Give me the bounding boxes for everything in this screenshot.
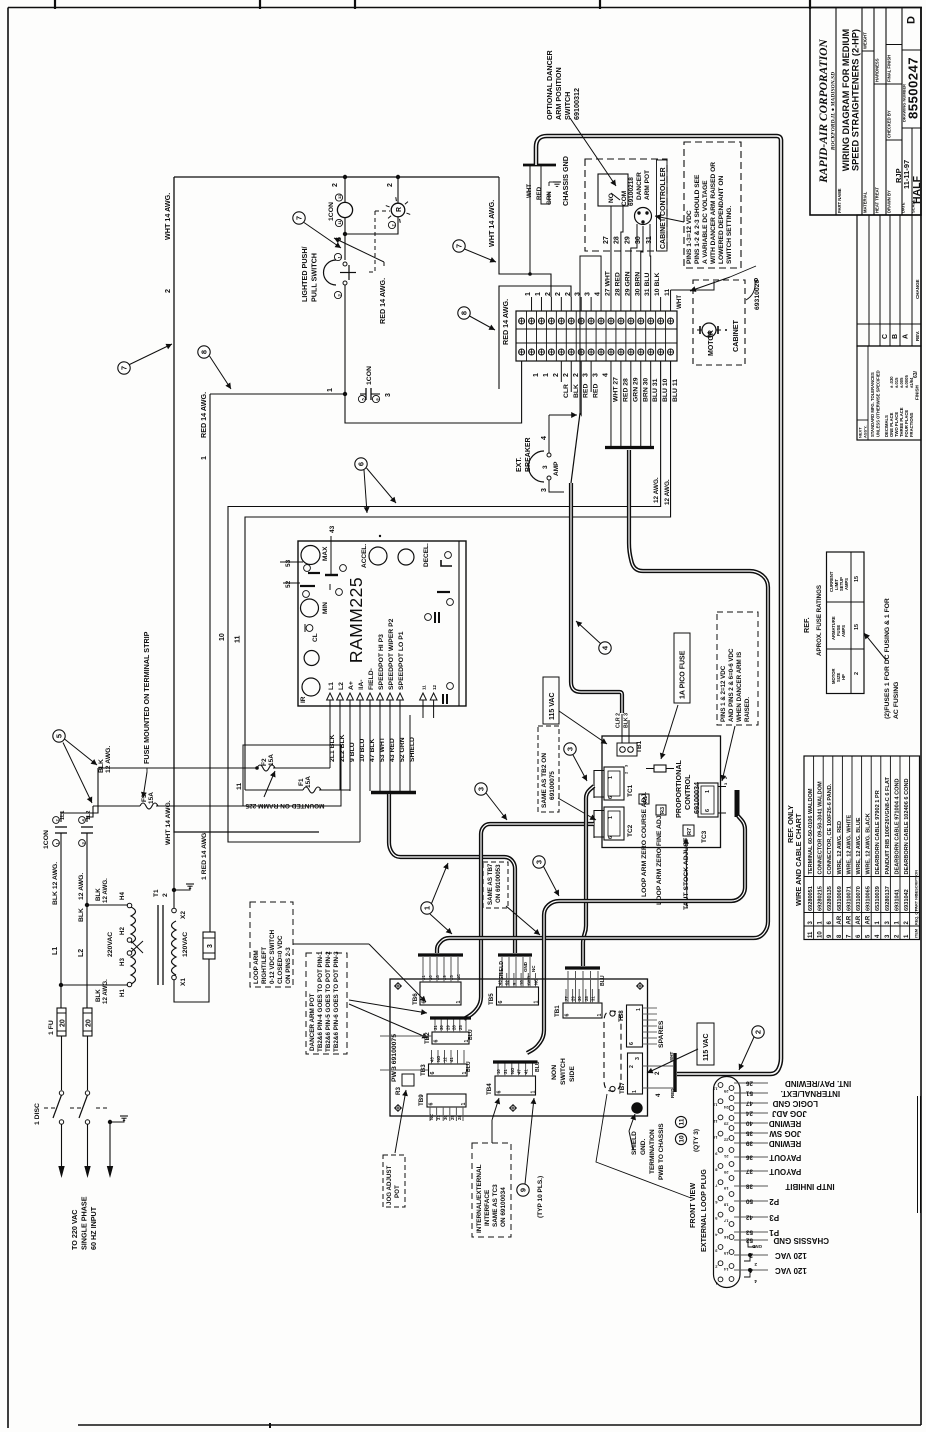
svg-text:9 BLU: 9 BLU (349, 742, 356, 762)
svg-text:‖A-: ‖A- (358, 679, 365, 690)
svg-text:WHT 14 AWG.: WHT 14 AWG. (165, 800, 172, 845)
leader fuses note (864, 633, 886, 660)
svg-text:11: 11 (678, 1118, 685, 1125)
svg-text:PULL SWITCH: PULL SWITCH (310, 253, 319, 302)
svg-text:7: 7 (120, 366, 129, 370)
svg-text:PART NAME: PART NAME (837, 188, 842, 213)
svg-text:6: 6 (430, 1072, 436, 1075)
svg-text:R: R (396, 207, 403, 212)
svg-text:2: 2 (332, 183, 339, 187)
svg-text:2: 2 (555, 292, 562, 296)
svg-text:BLK: BLK (78, 908, 85, 922)
svg-text:6931042: 6931042 (904, 889, 910, 911)
svg-text:DEARBORN CABLE 102406 6 COND: DEARBORN CABLE 102406 6 COND (904, 778, 910, 874)
PWB mounting marks (395, 983, 402, 990)
svg-text:65310039: 65310039 (875, 886, 881, 911)
svg-text:SHIELD: SHIELD (631, 1131, 638, 1155)
svg-text:ITEM: ITEM (915, 929, 919, 938)
svg-text:1: 1 (327, 388, 334, 392)
leader balloon 3 low (544, 867, 560, 897)
svg-text:1: 1 (597, 1014, 603, 1017)
wire lamp R to top line (397, 177, 399, 203)
svg-text:25: 25 (723, 1089, 728, 1094)
svg-text:PANDUIT RIB 100F26VGN8-C 6 FL: PANDUIT RIB 100F26VGN8-C 6 FLAT (885, 777, 891, 875)
svg-text:JOG ADJ: JOG ADJ (772, 1109, 807, 1118)
svg-text:52: 52 (745, 1237, 753, 1244)
svg-text:CONTROL: CONTROL (683, 774, 692, 810)
proportional control box (602, 736, 721, 848)
TC1 connector (604, 767, 624, 800)
svg-text:2: 2 (854, 672, 860, 675)
balloon 9 (517, 1184, 529, 1196)
svg-text:UNLESS OTHERWISE SPECIFIED: UNLESS OTHERWISE SPECIFIED (876, 370, 881, 437)
svg-text:120 VAC: 120 VAC (775, 1266, 807, 1275)
svg-text:2: 2 (162, 893, 169, 897)
leader balloon 7 to enclosure (130, 344, 173, 365)
svg-text:ASS'Y.: ASS'Y. (863, 425, 868, 438)
svg-text:LIGHTED PUSH/: LIGHTED PUSH/ (300, 246, 309, 302)
wire switch to node 1 (344, 285, 346, 394)
svg-text:3: 3 (566, 747, 575, 751)
leader 115vac to box (559, 711, 607, 744)
svg-text:1CON: 1CON (366, 366, 373, 385)
R7 box (683, 825, 694, 836)
RAMM shield bar (371, 791, 416, 794)
same as TB7 dashed label (483, 862, 508, 908)
svg-text:2: 2 (553, 373, 560, 377)
svg-text:BLK 3: BLK 3 (624, 713, 630, 728)
loop plug pins (718, 1083, 723, 1088)
lamp 1CON pilot light (337, 202, 352, 217)
115 VAC label upper (543, 677, 559, 724)
svg-text:16: 16 (723, 1235, 728, 1240)
svg-text:4: 4 (603, 373, 610, 377)
svg-text:1: 1 (534, 1001, 540, 1004)
wire RED-1 vertical (209, 394, 211, 932)
wire BLU 10 to RAMM line (228, 361, 661, 842)
svg-text:1 DISC: 1 DISC (34, 1103, 41, 1125)
TC2 connector (604, 807, 624, 840)
svg-text:14: 14 (723, 1267, 728, 1272)
wire chart table (804, 756, 920, 940)
svg-text:SPARES: SPARES (658, 1020, 665, 1048)
balloon 7 left (118, 362, 130, 374)
svg-text:115 VAC: 115 VAC (703, 1034, 710, 1062)
svg-text:JOG ADJUST: JOG ADJUST (386, 1165, 393, 1205)
svg-text:28 RED: 28 RED (614, 272, 621, 296)
terminal screws bottom row (519, 349, 525, 355)
svg-text:2: 2 (563, 373, 570, 377)
jog adjust pot dashed label (383, 1155, 405, 1207)
svg-text:31: 31 (436, 1115, 441, 1120)
leader balloon 9 (525, 1098, 534, 1184)
svg-text:AMP: AMP (553, 461, 560, 476)
junction L1 to H1 (59, 983, 63, 987)
fold mark bottom (269, 1423, 271, 1428)
TC3 cable bar (735, 790, 740, 817)
svg-text:TB7: TB7 (619, 1082, 626, 1094)
svg-text:LOGIC GND: LOGIC GND (772, 1099, 818, 1108)
svg-text:WHT: WHT (526, 184, 533, 198)
title block outline (810, 8, 921, 216)
R1 box (639, 794, 649, 804)
svg-text:50: 50 (745, 1198, 753, 1205)
gnd at X2 (174, 886, 190, 890)
svg-text:SAME AS TC3: SAME AS TC3 (492, 1184, 499, 1227)
svg-text:20: 20 (723, 1170, 728, 1175)
TB2 terminal block (432, 1032, 469, 1044)
svg-text:29 GRN: 29 GRN (624, 271, 631, 296)
svg-text:BLK: BLK (95, 888, 102, 901)
TB5 terminal block (497, 987, 539, 1005)
svg-text:INT. PAY/REWIND: INT. PAY/REWIND (785, 1079, 851, 1088)
svg-text:FUSE MOUNTED ON TERMINAL STRIP: FUSE MOUNTED ON TERMINAL STRIP (142, 631, 151, 764)
RAMM screw 11 (329, 584, 331, 590)
leader pico fuse (661, 705, 678, 759)
svg-text:120VAC: 120VAC (182, 932, 189, 957)
svg-text:RED 14 AWG.: RED 14 AWG. (199, 392, 208, 438)
svg-text:7: 7 (295, 216, 304, 220)
svg-text:85500247: 85500247 (906, 57, 921, 119)
svg-text:TB6: TB6 (412, 993, 419, 1005)
svg-text:BLU: BLU (466, 1061, 472, 1072)
svg-text:6: 6 (498, 1001, 504, 1004)
svg-text:43: 43 (430, 1057, 435, 1062)
svg-text:53 WHT: 53 WHT (379, 736, 386, 762)
transformer secondary (172, 921, 177, 975)
svg-text:1: 1 (531, 1091, 537, 1094)
svg-text:CHECKED BY: CHECKED BY (887, 110, 892, 138)
svg-text:TERMINATION: TERMINATION (649, 1129, 656, 1174)
terminal strip body (516, 311, 677, 361)
svg-text:0-12 VDC SWITCH: 0-12 VDC SWITCH (269, 929, 276, 984)
leader balloon 3 mid (486, 793, 507, 820)
svg-text:RED: RED (593, 384, 600, 398)
svg-text:6: 6 (629, 1042, 635, 1045)
breaker contacts (547, 453, 551, 457)
svg-text:53: 53 (285, 559, 292, 567)
svg-text:EXT.: EXT. (516, 457, 523, 472)
svg-text:NC: NC (429, 1114, 434, 1120)
svg-text:INTERNAL/EXT.: INTERNAL/EXT. (781, 1089, 841, 1098)
svg-text:1: 1 (461, 1103, 467, 1106)
svg-text:SPEEDPOT LO P1: SPEEDPOT LO P1 (398, 631, 405, 690)
svg-text:NO: NO (436, 1055, 441, 1062)
svg-text:11: 11 (422, 685, 427, 690)
ground electrode (108, 1120, 112, 1124)
svg-text:41: 41 (449, 1057, 454, 1062)
svg-text:7: 7 (455, 244, 464, 248)
svg-text:AMPS: AMPS (844, 578, 849, 590)
svg-text:15A: 15A (305, 776, 312, 788)
TB6 terminal block (420, 982, 461, 1005)
svg-text:T1: T1 (153, 889, 160, 897)
svg-text:30: 30 (577, 996, 582, 1001)
svg-text:R3: R3 (660, 807, 666, 814)
svg-text:6: 6 (608, 796, 614, 799)
chassis gnd symbol top (553, 181, 561, 183)
svg-text:1: 1 (705, 790, 711, 793)
svg-text:WHT 14 AWG.: WHT 14 AWG. (487, 200, 496, 247)
svg-text:REV.: REV. (915, 331, 920, 341)
svg-text:TB8: TB8 (618, 1010, 625, 1022)
svg-text:RED: RED (536, 186, 543, 200)
svg-text:220VAC: 220VAC (107, 932, 114, 957)
svg-text:NON: NON (551, 1065, 558, 1080)
cable to proportional control TB1 (571, 413, 580, 483)
svg-text:2: 2 (754, 1262, 757, 1267)
svg-text:37: 37 (745, 1168, 753, 1175)
svg-text:10: 10 (712, 1135, 717, 1140)
svg-text:RED 28: RED 28 (622, 378, 629, 402)
svg-text:TB2&6 PIN-4 GOES TO POT PIN-1: TB2&6 PIN-4 GOES TO POT PIN-1 (317, 951, 324, 1052)
leader dancer switch label (570, 118, 616, 186)
leader jog adjust to R3 (395, 1090, 406, 1153)
leader balloon 5 to F3 line (63, 743, 92, 804)
svg-text:P2: P2 (769, 1197, 779, 1206)
svg-text:HARDNESS: HARDNESS (875, 58, 880, 82)
svg-text:RAPID-AIR CORPORATION: RAPID-AIR CORPORATION (818, 39, 830, 184)
svg-text:47: 47 (745, 1100, 753, 1107)
svg-text:25: 25 (450, 1115, 455, 1120)
svg-text:BLU 31: BLU 31 (652, 378, 659, 402)
leaders dancer note to TB2 TB6 (349, 1000, 427, 1013)
svg-text:L1: L1 (52, 947, 59, 955)
leader balloon 8 (470, 316, 496, 330)
svg-text:INTERFACE: INTERFACE (484, 1189, 491, 1226)
scan speck (379, 535, 381, 537)
wire L2 down (86, 845, 88, 1008)
svg-text:INTERNAL/EXTERNAL: INTERNAL/EXTERNAL (476, 1164, 483, 1233)
svg-text:DRAWN BY: DRAWN BY (887, 190, 892, 213)
RAMM pot ACCEL (369, 547, 387, 565)
cabinet controller label (657, 160, 668, 251)
svg-text:WIRE, 12 AWG. WHITE: WIRE, 12 AWG. WHITE (846, 814, 852, 874)
svg-text:22: 22 (723, 1138, 728, 1143)
svg-text:SAME AS TB7: SAME AS TB7 (487, 863, 494, 905)
svg-text:CABINET CONTROLLER: CABINET CONTROLLER (660, 167, 667, 249)
junction L2 to H4 (85, 903, 89, 907)
terminal strip cell dividers (526, 311, 528, 361)
svg-text:ON PINS 2-3: ON PINS 2-3 (285, 947, 292, 984)
svg-text:24: 24 (745, 1110, 753, 1117)
svg-text:6: 6 (608, 836, 614, 839)
loop cable termination bar (673, 1053, 676, 1092)
svg-text:12: 12 (443, 1057, 448, 1062)
balloon 8 right (458, 307, 470, 319)
breaker wiring (548, 415, 550, 453)
loop plug wires and labels (734, 1082, 768, 1084)
svg-text:15A: 15A (268, 754, 275, 766)
svg-text:REWIND: REWIND (769, 1119, 802, 1128)
svg-text:CABINET: CABINET (731, 319, 740, 352)
svg-text:WITH DANCER ARM RAISED OR: WITH DANCER ARM RAISED OR (710, 162, 717, 264)
svg-text:1: 1 (608, 776, 614, 779)
svg-text:FINISH: FINISH (915, 385, 920, 400)
leader pins note to pot (655, 216, 684, 222)
wire lamp to top line (344, 177, 346, 203)
svg-text:1: 1 (525, 292, 532, 296)
svg-text:SPEED STRAIGHTENERS (2-HP): SPEED STRAIGHTENERS (2-HP) (851, 29, 861, 171)
pilot lamp R (391, 203, 405, 217)
internal/external interface dashed box (472, 1143, 511, 1237)
svg-text:31: 31 (433, 1025, 438, 1030)
RAMM pot IR (302, 678, 320, 696)
svg-text:26: 26 (745, 1080, 753, 1087)
svg-text:TERMINAL 60-50-0106 WALDOM: TERMINAL 60-50-0106 WALDOM (808, 788, 814, 874)
svg-text:38: 38 (745, 1183, 753, 1190)
svg-text:AMPS: AMPS (841, 625, 846, 637)
svg-text:2: 2 (654, 1071, 661, 1075)
svg-text:SWITCH: SWITCH (563, 92, 572, 120)
svg-text:DANCER ARM POT: DANCER ARM POT (309, 993, 316, 1051)
leader 115vac lower (647, 1049, 698, 1073)
svg-text:1: 1 (535, 292, 542, 296)
svg-text:HP: HP (841, 674, 846, 680)
balloon 4 (599, 642, 611, 654)
RAMM output wires (329, 706, 331, 768)
lamp R terminal 2 (388, 221, 395, 228)
R3 box (656, 805, 666, 815)
svg-text:69310070: 69310070 (856, 886, 862, 911)
svg-text:69310065: 69310065 (866, 886, 872, 911)
svg-text:2: 2 (573, 373, 580, 377)
RAMM pot aux (398, 549, 414, 565)
svg-text:P1: P1 (769, 1228, 779, 1237)
svg-text:2: 2 (545, 292, 552, 296)
svg-text:AR: AR (837, 915, 843, 924)
svg-text:BLU 10: BLU 10 (662, 378, 669, 402)
svg-text:BRN 30: BRN 30 (642, 378, 649, 402)
svg-text:GRN 29: GRN 29 (632, 377, 639, 402)
cabinet enclosure box (174, 176, 499, 178)
wire lamp R branch (345, 217, 398, 234)
svg-text:1 FU: 1 FU (48, 1020, 55, 1035)
svg-text:31: 31 (646, 236, 653, 244)
svg-text:NO: NO (510, 1067, 515, 1074)
svg-text:27 WHT: 27 WHT (604, 270, 611, 296)
svg-text:FIELD-: FIELD- (368, 668, 375, 690)
svg-text:L1: L1 (328, 682, 335, 690)
svg-text:51: 51 (745, 1090, 753, 1097)
wire 29 30 31 to dancer pot (631, 224, 637, 311)
svg-text:LOWERED DEPENDANT ON: LOWERED DEPENDANT ON (718, 175, 725, 264)
svg-text:BLU 11: BLU 11 (672, 379, 679, 402)
svg-text:1: 1 (543, 373, 550, 377)
leader balloon 5 to F2 line (65, 739, 98, 765)
terminal screws top row (519, 318, 525, 324)
svg-text:8: 8 (200, 350, 209, 354)
svg-text:3: 3 (477, 787, 486, 791)
terminal stubs and labels top (531, 297, 533, 311)
TB4 terminal block (495, 1076, 536, 1095)
junction dots 120vac (748, 1253, 752, 1257)
svg-text:11: 11 (664, 289, 671, 296)
svg-text:6931041: 6931041 (894, 889, 900, 911)
balloon 3 low (533, 856, 545, 868)
svg-text:L2: L2 (78, 949, 85, 957)
svg-text:APROX. FUSE RATINGS: APROX. FUSE RATINGS (816, 585, 823, 656)
leader balloon 8 to RED wire (210, 356, 232, 389)
svg-text:69100034: 69100034 (692, 782, 701, 814)
svg-text:GND: GND (526, 976, 531, 985)
wire RED to strip (499, 286, 571, 389)
fuse F3 line (93, 805, 140, 807)
wire X2 up / WHT 14 AWG (173, 832, 175, 908)
svg-text:CLR: CLR (563, 384, 570, 398)
wire X1 to fuse 3 (174, 959, 209, 1002)
svg-text:COM: COM (621, 191, 628, 206)
svg-text:FINAL FINISH: FINAL FINISH (887, 55, 892, 82)
svg-text:1: 1 (423, 906, 432, 910)
svg-text:69280135: 69280135 (827, 886, 833, 911)
dancer arm pot 69100218 (635, 208, 652, 225)
svg-text:AND PINS 2 & 6=0-6 VDC: AND PINS 2 & 6=0-6 VDC (728, 648, 735, 722)
wire 10 BLK 11 WHT to motor (660, 297, 662, 311)
svg-text:2: 2 (163, 289, 172, 293)
svg-text:31: 31 (503, 1069, 508, 1074)
svg-text:12 AWG.: 12 AWG. (105, 746, 112, 773)
svg-text:SPEEDPOT HI P3: SPEEDPOT HI P3 (378, 634, 385, 690)
svg-text:52 GRN: 52 GRN (399, 737, 406, 762)
svg-text:CHASSIS GND: CHASSIS GND (773, 1236, 829, 1245)
svg-text:30: 30 (443, 1115, 448, 1120)
svg-text:6: 6 (434, 1040, 440, 1043)
svg-text:3: 3 (583, 373, 590, 377)
svg-text:21: 21 (723, 1154, 728, 1159)
svg-text:4: 4 (595, 292, 602, 296)
svg-text:12: 12 (432, 684, 437, 690)
leader loop arm note to TB6 (293, 943, 369, 945)
shield bar under strip (605, 446, 654, 449)
svg-text:63/: 63/ (913, 370, 919, 378)
svg-text:115 VAC: 115 VAC (549, 693, 556, 721)
leader balloon 1 up (432, 863, 449, 904)
svg-text:1CON: 1CON (328, 202, 335, 221)
svg-text:(TYP 10 PLS.): (TYP 10 PLS.) (537, 1176, 544, 1218)
svg-text:MOTOR: MOTOR (708, 330, 715, 356)
svg-text:41: 41 (524, 1069, 529, 1074)
svg-text:43: 43 (329, 525, 336, 533)
svg-text:TB1: TB1 (636, 740, 643, 753)
svg-text:TB4: TB4 (486, 1083, 493, 1095)
svg-text:TC1: TC1 (627, 784, 634, 797)
svg-text:12: 12 (337, 194, 342, 199)
svg-text:CLOSED=0 VDC: CLOSED=0 VDC (277, 935, 284, 984)
svg-text:ARM POT: ARM POT (644, 170, 651, 200)
svg-text:29: 29 (445, 1025, 450, 1030)
wire 27 to NO/COM switch (610, 255, 612, 311)
svg-text:12 AWG.: 12 AWG. (78, 873, 85, 900)
svg-text:47: 47 (517, 1069, 522, 1074)
svg-text:CONNECTOR, CE 100F26-6 PAND.: CONNECTOR, CE 100F26-6 PAND. (827, 783, 833, 874)
RAMM pin arrows (327, 693, 334, 700)
svg-text:TB2&6 PIN-5 GOES TO POT PIN-2: TB2&6 PIN-5 GOES TO POT PIN-2 (325, 951, 332, 1052)
cable 115VAC run (balloon 2 cable) (536, 136, 781, 1074)
loop arm switch dashed note (250, 902, 293, 987)
svg-text:FRACTIONS: FRACTIONS (909, 412, 914, 437)
transformer core (157, 905, 159, 985)
tolerance block (857, 346, 921, 440)
RAMM screw low right (447, 683, 454, 690)
svg-text:LOOP ARM: LOOP ARM (253, 950, 260, 984)
svg-text:3: 3 (585, 292, 592, 296)
svg-text:AR: AR (846, 915, 852, 924)
leader pins note to TC3 (722, 726, 735, 781)
svg-text:53: 53 (745, 1229, 753, 1236)
svg-text:SWITCH SETTING.: SWITCH SETTING. (726, 206, 733, 264)
TB7 wires to cable bar (643, 1065, 674, 1067)
